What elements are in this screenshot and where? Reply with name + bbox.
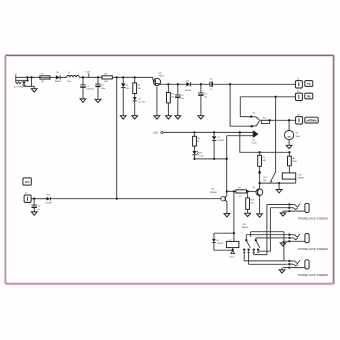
relay coil RL1 (282, 173, 304, 180)
svg-text:TIP41: TIP41 (159, 76, 164, 78)
inductor L1 (67, 72, 79, 83)
wire C5 to J1 (212, 83, 295, 85)
node LED tap (193, 131, 195, 133)
resistor R9 (236, 188, 247, 198)
node C4 tap (200, 83, 202, 85)
resistor R3 (167, 84, 175, 115)
wire bottom bias (260, 182, 296, 184)
wire jack1 top lead (267, 204, 289, 206)
node R3 tap (167, 83, 169, 85)
node R5 tap (258, 151, 260, 153)
ground D2 (120, 116, 126, 119)
box ATU (23, 178, 31, 185)
wire long vertical drop (116, 77, 118, 198)
trimmer arrow TR1 (258, 166, 268, 183)
svg-text:10u: 10u (204, 96, 207, 98)
node signal cross (116, 198, 118, 200)
svg-text:1N4: 1N4 (126, 88, 129, 90)
ground bias (276, 190, 282, 193)
wire coil drive (233, 191, 235, 233)
svg-text:1: 1 (29, 203, 30, 205)
svg-text:2N3902: 2N3902 (210, 192, 218, 194)
connector JX (DC input) (14, 74, 24, 89)
transistor Q3 (252, 187, 262, 196)
svg-text:PHONE JACK STEREO: PHONE JACK STEREO (298, 247, 329, 251)
capacitor C3 (175, 84, 184, 115)
svg-text:+12V: +12V (152, 132, 158, 135)
ground C7 (31, 212, 37, 215)
svg-text:ATU: ATU (25, 181, 30, 184)
relay coil L2 (226, 240, 239, 248)
node pin1-a (26, 76, 28, 78)
svg-text:R4: R4 (263, 118, 265, 120)
svg-text:1: 1 (289, 202, 290, 204)
ground input (31, 89, 37, 92)
svg-text:2kHz: 2kHz (296, 136, 300, 138)
wire clamp to ground elbow (24, 85, 32, 86)
node opamp inv drop (229, 83, 231, 85)
ground C4 (198, 116, 204, 119)
zener D3 (133, 94, 146, 116)
node R2 tap (134, 76, 136, 78)
node coil loop (233, 232, 235, 234)
net flag +12V coil (229, 251, 235, 259)
ground Q2 (224, 214, 230, 217)
ground G1 (286, 145, 292, 148)
resistor R8 (193, 132, 201, 146)
svg-text:+12V: +12V (229, 257, 235, 259)
net flag +12V (85, 71, 91, 77)
node D2 tap (122, 76, 124, 78)
svg-text:10k: 10k (251, 203, 254, 205)
svg-text:+12V: +12V (85, 71, 91, 73)
connector J3 (296, 114, 303, 127)
wire JX pin2 stub (16, 79, 27, 81)
svg-text:1u: 1u (38, 209, 40, 211)
wire jack3 ring line (249, 252, 288, 265)
wire pair bottom (227, 135, 254, 137)
wire Q1 out rail (161, 83, 186, 85)
box ANTENNA (305, 117, 318, 123)
node coil +12V (232, 249, 234, 251)
node R6 tap (288, 151, 290, 153)
wire G1 to ground (288, 140, 290, 146)
border frame bottom (5, 283, 333, 285)
relay pole 2 (252, 239, 260, 252)
node C1 tap (82, 76, 84, 78)
diode D1 (55, 72, 62, 83)
wire jack3 tip line (244, 260, 287, 262)
node mic tap (288, 119, 290, 121)
node R10 tap (246, 190, 248, 192)
wire inv input leg (230, 84, 252, 126)
svg-text:4k7: 4k7 (171, 96, 174, 98)
ground Q3 (257, 214, 263, 217)
node relay drive tap (233, 190, 235, 192)
wire pole2 to jack2 ring (256, 238, 288, 240)
net +12V open node (152, 131, 163, 134)
wire J7 to D10 (31, 198, 46, 200)
connector J2 (295, 91, 302, 104)
capacitor C1 (80, 77, 94, 99)
capacitor C7 (32, 199, 42, 212)
wire outer loop top (251, 232, 284, 237)
wire D1 to L1 (60, 76, 67, 78)
wire Q3 emitter (259, 195, 261, 214)
capacitor C5 series (209, 78, 213, 91)
ground R10 (245, 213, 251, 216)
wire D4 to C5 (190, 83, 209, 85)
wire input ground run (32, 77, 35, 88)
diode DZ input clamp (22, 81, 26, 85)
wire Q3 collector up (259, 183, 261, 189)
ground jack J5 (280, 241, 286, 246)
svg-text:1: 1 (300, 89, 301, 91)
svg-text:100u/25v: 100u/25v (86, 89, 94, 91)
phone jack J4 (283, 202, 329, 221)
resistor R2 (133, 77, 142, 93)
wire trimmer wiper (275, 97, 277, 172)
wire jack1 tip drop (254, 205, 267, 255)
svg-text:1N4148: 1N4148 (217, 243, 223, 245)
node D7 bus (213, 158, 215, 160)
svg-text:1u: 1u (210, 89, 212, 91)
node D7 tap (213, 131, 215, 133)
wire R1 to Q1 (112, 76, 153, 78)
svg-text:ANTENNA: ANTENNA (306, 119, 317, 122)
wire relay rail drop (240, 132, 290, 152)
connector J1 (295, 78, 302, 91)
node C2 tap (97, 76, 99, 78)
node mixer in-top (250, 115, 252, 117)
wire coil box feed (233, 233, 235, 241)
ground jack J6 (279, 268, 285, 274)
node D8 bus (193, 158, 195, 160)
ground jack J4 (280, 211, 286, 216)
node Q2 collector (226, 190, 228, 192)
box TX (305, 81, 313, 87)
resistor R10 (246, 191, 255, 209)
wire bias ground stem (278, 183, 280, 189)
ground C2 (95, 99, 101, 102)
svg-text:PHONE JACK STEREO: PHONE JACK STEREO (298, 217, 329, 221)
diode D7 (212, 132, 224, 142)
diode D10 (45, 195, 51, 205)
resistor R1 (102, 73, 112, 82)
wire collector link (227, 190, 236, 192)
capacitor C2 (95, 77, 105, 99)
border frame left (4, 55, 6, 283)
wire status bus (195, 158, 227, 160)
ground Q1 (154, 116, 160, 119)
wire pole1 to jack2 tip (246, 235, 287, 241)
node pin2 (26, 79, 28, 81)
svg-text:1N4007: 1N4007 (55, 81, 62, 83)
wire R9 to Q3 (247, 190, 257, 192)
svg-text:1k: 1k (197, 141, 199, 143)
phone jack J5 (283, 232, 329, 251)
svg-text:LED: LED (200, 155, 204, 157)
resistor R6 (288, 152, 298, 166)
wire pair top (163, 131, 253, 133)
svg-text:10u: 10u (181, 98, 184, 100)
node Q3 collector (258, 182, 260, 184)
svg-text:1N4148: 1N4148 (45, 203, 51, 205)
svg-text:1k: 1k (239, 196, 241, 198)
svg-text:4k4: 4k4 (263, 180, 266, 182)
node output junction (268, 119, 270, 121)
wire F1 to D1 (50, 76, 56, 78)
svg-text:5v1/1.3w: 5v1/1.3w (138, 101, 146, 103)
node bus-collector (226, 158, 228, 160)
wire Q2 emitter (226, 202, 228, 214)
svg-text:100n: 100n (101, 88, 105, 90)
ground R3 (166, 116, 172, 119)
mixer stubs U1 (251, 112, 259, 126)
wire collector vertical (226, 136, 228, 196)
box RX (305, 93, 313, 99)
wire row2 to J2 (240, 96, 295, 98)
node C7 tap (33, 198, 35, 200)
wire D9 bottom (214, 243, 233, 251)
diode D2 (121, 77, 129, 115)
wire pin1-pin2 tie (27, 77, 29, 80)
node bias ground tap (278, 182, 280, 184)
wire jack1 ring drop (258, 208, 270, 252)
diode D4 (185, 81, 191, 93)
svg-text:RELAY: RELAY (298, 177, 305, 180)
wire Q1 base to ground (156, 87, 158, 116)
border frame top (5, 54, 333, 56)
buzzer G1 (285, 120, 300, 139)
wire R10 ground stem (247, 209, 249, 213)
wire relay to bias (295, 179, 297, 183)
svg-text:1N4148: 1N4148 (217, 140, 223, 142)
svg-text:1: 1 (289, 232, 290, 234)
resistor R5 (258, 152, 267, 166)
capacitor C4 (198, 84, 207, 115)
svg-text:DC CONN: DC CONN (14, 87, 24, 89)
wire feedback left leg (240, 97, 251, 117)
wire coil loop top (214, 232, 234, 234)
wire D7 to bus (213, 140, 215, 159)
wire L1 to R1 (79, 76, 102, 78)
wire output row (259, 119, 295, 121)
relay pole 1 (243, 239, 251, 252)
svg-text:PHONE JACK STEREO: PHONE JACK STEREO (298, 273, 329, 277)
border frame right (333, 55, 335, 283)
svg-text:1: 1 (289, 258, 290, 260)
diode D9 (212, 233, 223, 245)
node row2 junction (274, 96, 276, 98)
wire signal line (50, 198, 221, 200)
wire JX pin1 to fuse (16, 76, 40, 78)
svg-text:100u: 100u (67, 81, 71, 83)
svg-text:TX: TX (307, 82, 311, 86)
phone jack J6 (283, 258, 329, 277)
node C3 tap (177, 83, 179, 85)
ground C1 (80, 99, 86, 102)
plug P1 (252, 131, 259, 145)
node main drop (116, 76, 118, 78)
resistor R4 loop (261, 118, 269, 124)
node pin1-b (30, 76, 32, 78)
svg-text:470R: 470R (292, 161, 297, 163)
led D8 (192, 146, 204, 157)
wiper diagonal (270, 172, 275, 183)
wire coil bottom stub (232, 248, 234, 251)
svg-text:1: 1 (300, 125, 301, 127)
wire R6 to relay coil (288, 166, 290, 173)
ground C3 (175, 116, 181, 119)
svg-text:RELAY: RELAY (242, 226, 249, 229)
transistor Q2 (210, 189, 228, 203)
fuse F1 (40, 73, 50, 82)
svg-text:PLUG: PLUG (252, 142, 257, 144)
wire D8 to bus (194, 155, 196, 159)
svg-text:1: 1 (300, 102, 301, 104)
wire jack1 ring lead (270, 207, 289, 209)
node relay rail tap (239, 131, 241, 133)
wire pole1 NC drop (243, 252, 245, 261)
label relay contacts (242, 224, 249, 229)
svg-text:1N4148: 1N4148 (185, 90, 191, 92)
wire outer loop right (283, 232, 285, 261)
connector J7 (24, 193, 31, 206)
ground D3 (132, 116, 138, 119)
node mixer in-bottom (251, 125, 253, 127)
svg-text:RX: RX (307, 94, 311, 98)
transistor Q1 (153, 72, 164, 85)
